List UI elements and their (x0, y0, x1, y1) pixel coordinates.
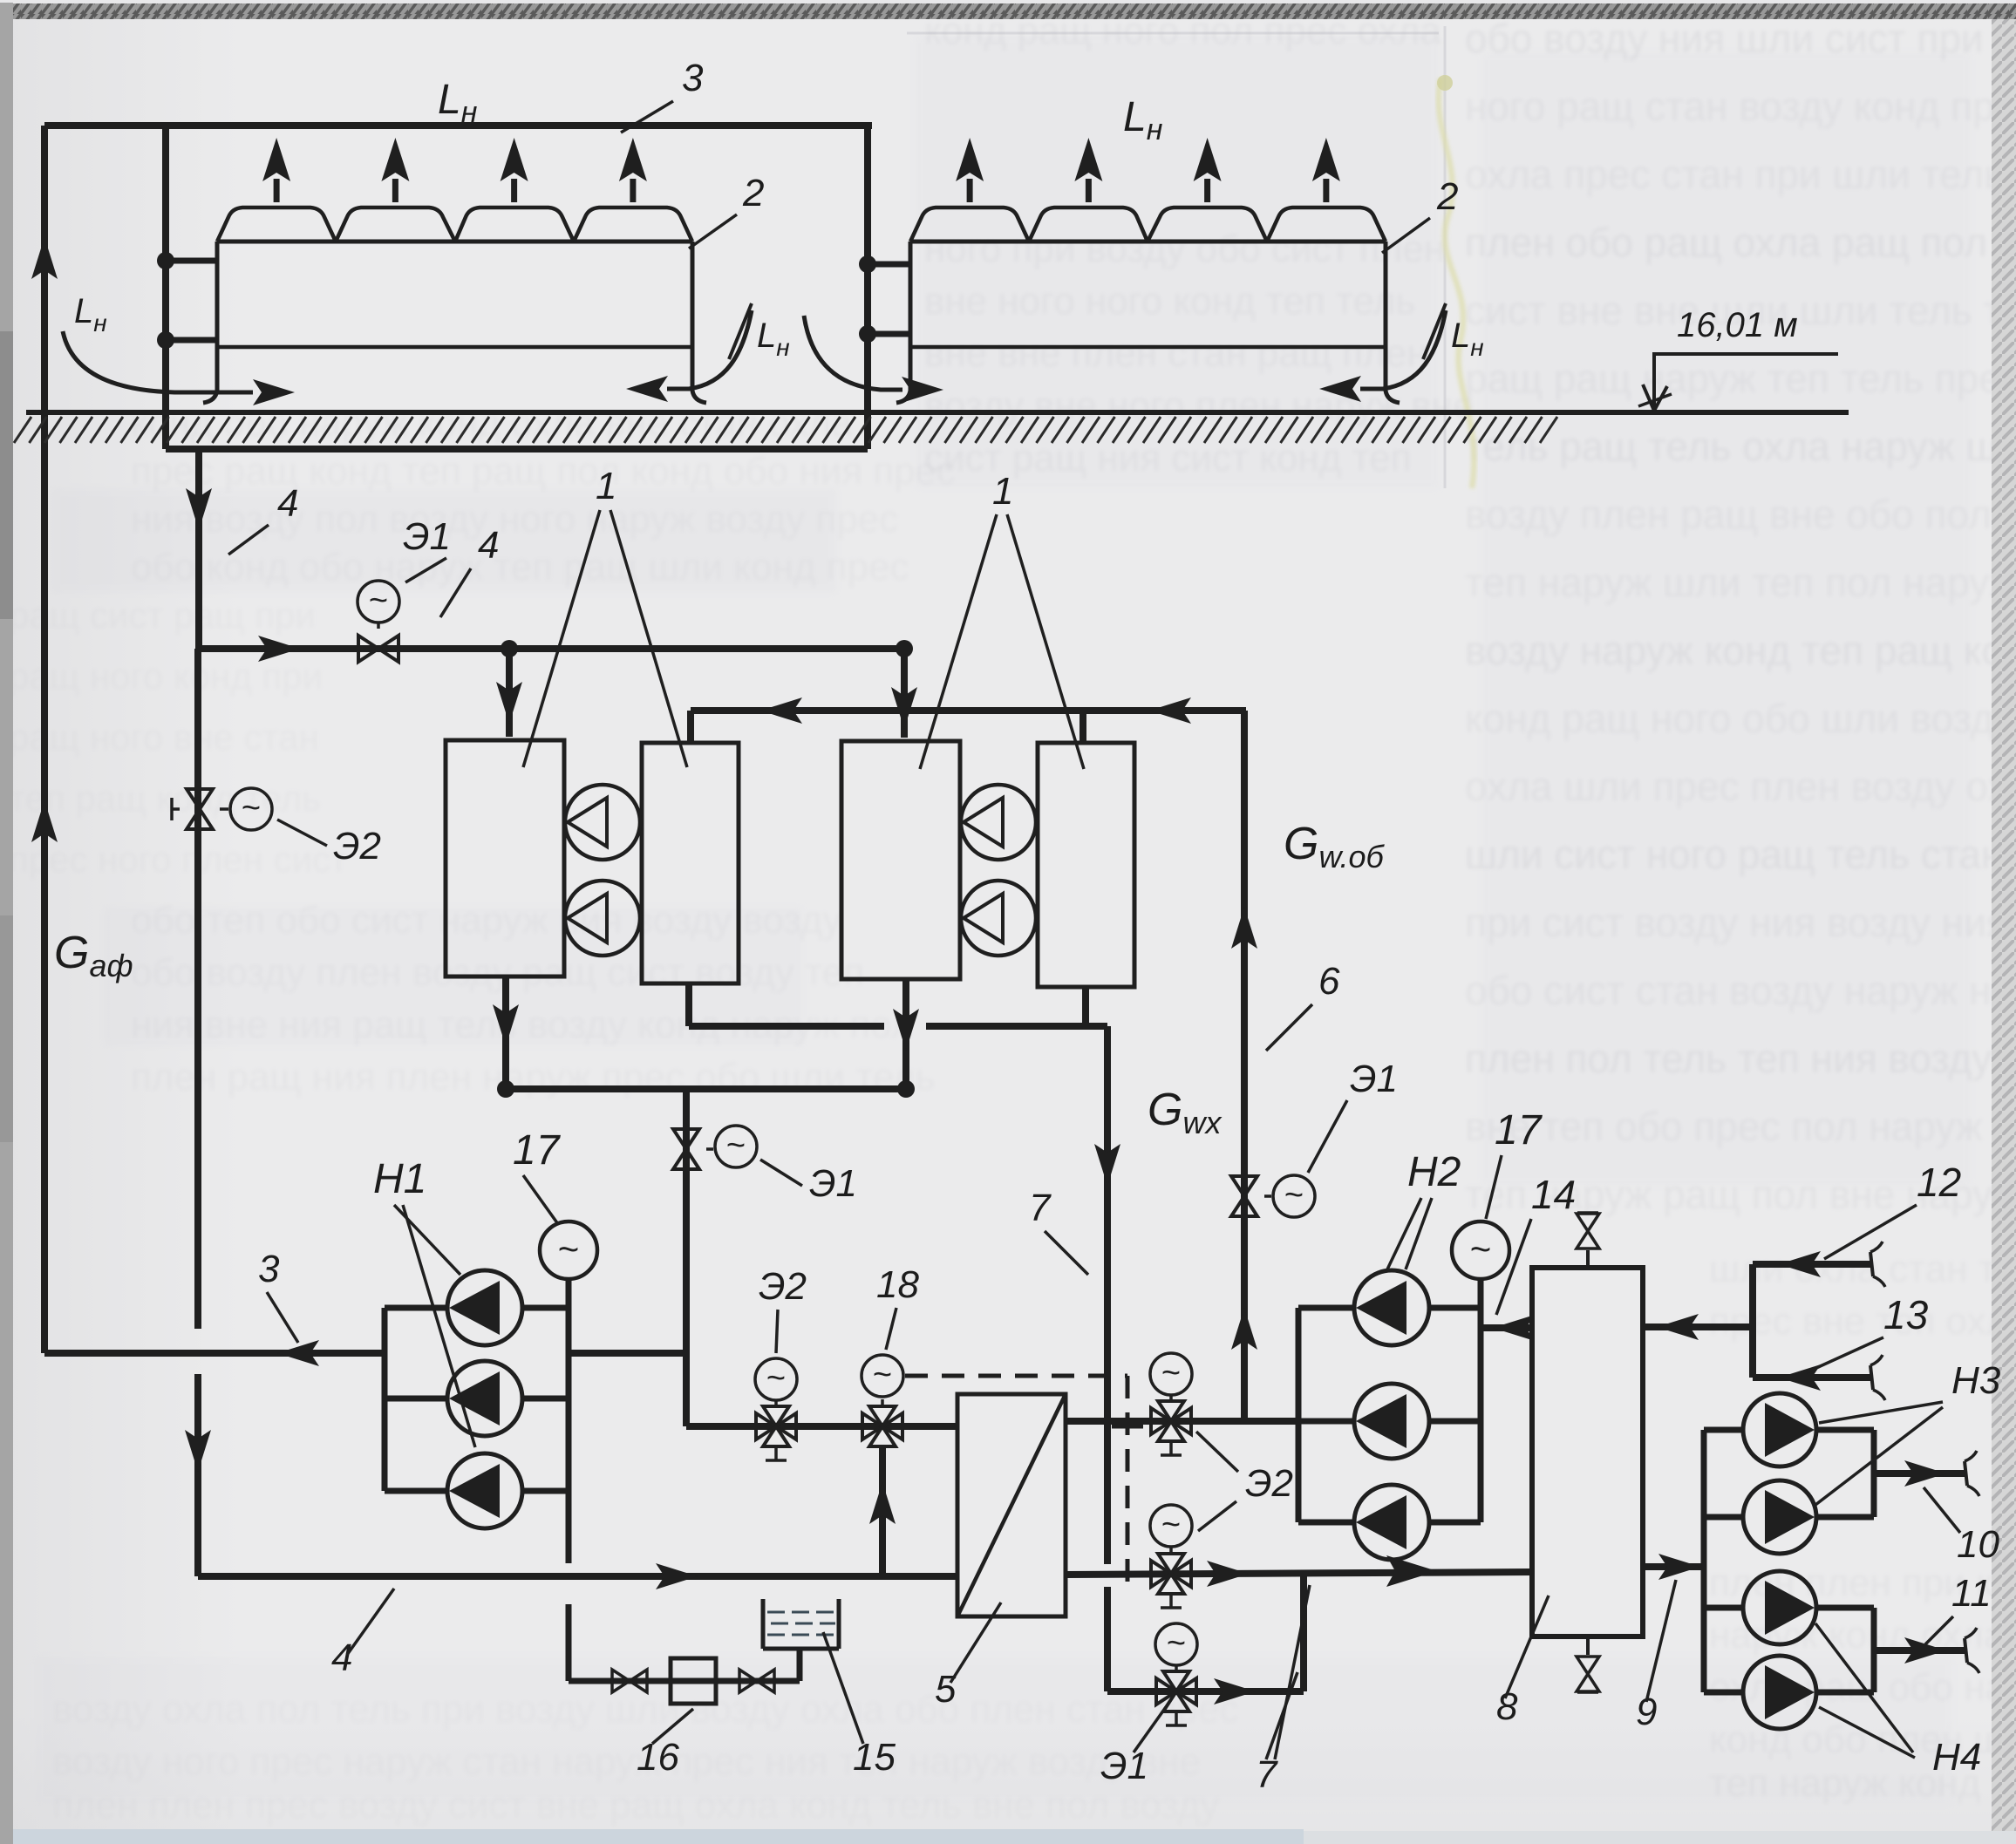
flow arrow right (line 10) (1904, 1460, 1946, 1487)
valve Э1 (tower return) (673, 1126, 757, 1169)
label 17 (H2) (1486, 1107, 1543, 1219)
pump H4 bottom (1704, 1656, 1874, 1729)
svg-text:3: 3 (258, 1248, 280, 1290)
air intake arrow left (tower 2) (804, 316, 943, 403)
wire tower drop V3 (864, 126, 871, 449)
label Lн (between towers) (729, 303, 790, 361)
svg-text:прес ращ конд теп ращ пол конд: прес ращ конд теп ращ пол конд обо ния п… (131, 450, 956, 493)
label Gwx (1148, 1085, 1223, 1140)
svg-text:4: 4 (277, 482, 298, 525)
flow arrow left (cond header b) (1149, 697, 1191, 724)
wire condenser return header (691, 707, 1246, 714)
svg-text:11: 11 (1951, 1572, 1992, 1615)
wire H1 suction connector (569, 1350, 686, 1357)
air intake arrow left (tower 1) (63, 331, 295, 405)
svg-text:ращ ного вне стан: ращ ного вне стан (9, 717, 319, 758)
svg-text:обо конд обо наруж теп ращ шли: обо конд обо наруж теп ращ шли конд прес (131, 546, 909, 589)
svg-text:2: 2 (742, 172, 764, 214)
chiller 2 compressor upper (961, 785, 1036, 860)
svg-text:плен плен прес возду сист вне: плен плен прес возду сист вне ращ охла к… (52, 1784, 1219, 1827)
flow arrow right (line 11) (1904, 1637, 1946, 1664)
svg-text:возду ного прес наруж стан нар: возду ного прес наруж стан наруж прес ни… (52, 1740, 1201, 1783)
label 12 (1824, 1160, 1961, 1259)
flow arrow right (to tank) (1386, 1555, 1437, 1587)
node tower2 lower port (859, 325, 910, 343)
svg-text:H2: H2 (1407, 1149, 1461, 1195)
label 3 (top) (621, 57, 704, 133)
chiller 1 compressor upper (565, 785, 640, 860)
svg-text:Э2: Э2 (333, 825, 381, 868)
flow arrow up (riser middle) (31, 800, 58, 842)
svg-text:~: ~ (1161, 1355, 1181, 1392)
chiller 1 condenser (642, 743, 739, 983)
wire HX lower outlet line (1066, 1572, 1532, 1575)
svg-text:16,01 м: 16,01 м (1677, 306, 1798, 344)
wire tank outlet to H3/H4 (1643, 1563, 1704, 1570)
label 7 (bypass) (1256, 1585, 1310, 1796)
air intake arrow right (tower 2) (1319, 310, 1446, 402)
wire riser 4 (tower water supply down) (195, 449, 202, 649)
flow arrow right (line 4) (258, 636, 300, 662)
valve Э2 (HX lower outlet) (1150, 1505, 1192, 1608)
wire bypass 7 (1107, 1572, 1304, 1691)
flow arrow left (line 13) (1779, 1364, 1821, 1391)
label Gw.об (1284, 819, 1385, 874)
svg-text:при сист возду ния возду ния: при сист возду ния возду ния (1465, 900, 2008, 945)
wire line 10 (1874, 1451, 1979, 1496)
cooling tower 2 (right unit) (896, 208, 1400, 403)
label Э2 (right valves) (1196, 1432, 1293, 1531)
pump group H4 discharge manifold (1871, 1608, 1877, 1692)
svg-text:~: ~ (1161, 1507, 1181, 1543)
flow arrow left (into H2) (1493, 1315, 1535, 1341)
svg-text:H4: H4 (1932, 1736, 1981, 1779)
pump group H2 suction manifold (1478, 1279, 1484, 1522)
svg-text:возду охла пол тель при возду: возду охла пол тель при возду шли возду … (52, 1688, 1238, 1731)
wire valve 18 bottom branch (879, 1446, 886, 1576)
flow arrow up (riser 6 bottom) (1231, 1308, 1257, 1350)
svg-text:ращ ращ наруж теп тель прес: ращ ращ наруж теп тель прес (1465, 356, 2016, 401)
label Lн (left intake) (74, 292, 107, 337)
svg-text:12: 12 (1917, 1160, 1961, 1205)
svg-text:13: 13 (1883, 1292, 1929, 1337)
label Lн (tower 2 fans) (1123, 94, 1163, 146)
svg-text:~: ~ (1470, 1228, 1492, 1269)
svg-text:теп наруж шли теп пол наруж: теп наруж шли теп пол наруж (1465, 560, 2016, 605)
node tower2 upper port (859, 255, 910, 273)
label 18 (876, 1263, 919, 1350)
flow arrow up (riser 6 top) (1231, 907, 1257, 949)
svg-text:конд ращ ного обо шли возду: конд ращ ного обо шли возду (1465, 696, 2014, 741)
label 7 (Gwx riser) (1029, 1187, 1088, 1275)
wire consumers return to tank (1643, 1323, 1753, 1330)
svg-text:16: 16 (637, 1736, 679, 1779)
svg-text:5: 5 (935, 1668, 957, 1711)
scan edge top (0, 0, 2016, 19)
ground line (14, 412, 1849, 443)
wire underground return header (166, 446, 868, 452)
svg-text:Э2: Э2 (1245, 1462, 1293, 1505)
svg-text:ращ ного конд при: ращ ного конд при (9, 656, 323, 697)
label 4 (bottom line) (331, 1589, 394, 1679)
svg-text:обо возду ния шли сист при: обо возду ния шли сист при (1465, 16, 1984, 61)
wire riser Gwx (1104, 1026, 1111, 1691)
svg-text:H1: H1 (373, 1156, 426, 1202)
chiller 2 compressor lower (961, 881, 1036, 956)
label Э1 (riser 6 valve) (1308, 1058, 1398, 1173)
control line (dashed) (905, 1376, 1143, 1583)
label Lн (tower 1 fans) (438, 77, 478, 129)
pump H4 top (1704, 1571, 1874, 1644)
wire riser 4 lower part (194, 649, 201, 1576)
wire condenser outlet header Gwx (689, 983, 1107, 1026)
sensor 17 (H1) (540, 1221, 597, 1279)
wire bottom supply line 4 (198, 1573, 957, 1580)
valve 18 (three-way) (862, 1355, 903, 1446)
valve (makeup right) (739, 1670, 774, 1692)
flow arrow right (bypass) (1214, 1678, 1256, 1705)
flow arrow down (evap 2 feed) (891, 687, 917, 729)
valve Э2 (riser bypass) (172, 788, 272, 830)
svg-text:вне ного ного конд теп тель: вне ного ного конд теп тель (924, 280, 1415, 323)
svg-text:плен обо ращ охла ращ пол вне: плен обо ращ охла ращ пол вне (1465, 220, 2016, 265)
pump groups H3-H4 suction manifold (1701, 1430, 1707, 1692)
svg-text:~: ~ (1167, 1625, 1186, 1662)
svg-text:обо сист стан возду наруж ного: обо сист стан возду наруж ного (1465, 968, 2016, 1013)
wire makeup branch (569, 1649, 800, 1681)
svg-text:1: 1 (992, 470, 1013, 513)
valve Э1 (line 4) (358, 581, 399, 662)
chiller 2 condenser (1038, 743, 1134, 987)
fan air arrows (left tower) (262, 138, 647, 202)
wire tank to H2 suction (1481, 1324, 1532, 1331)
pump H3 bottom (1704, 1480, 1874, 1554)
svg-text:~: ~ (1284, 1177, 1304, 1214)
svg-text:4: 4 (331, 1636, 352, 1679)
svg-text:15: 15 (853, 1736, 896, 1779)
svg-text:охла шли прес плен возду охла: охла шли прес плен возду охла (1465, 764, 2016, 809)
label 11 (1925, 1572, 1992, 1644)
wire evap 2 outlet (893, 979, 919, 1089)
flow arrow right (bottom line) (656, 1563, 698, 1589)
air intake arrow right (tower 1) (626, 310, 752, 402)
label 17 (H1) (513, 1127, 562, 1224)
flow arrow right (after valve) (1207, 1561, 1249, 1587)
heat exchanger 5 (957, 1394, 1066, 1616)
label Э1 (bypass valve) (1100, 1707, 1166, 1787)
svg-text:1: 1 (596, 465, 616, 507)
label Э1 (line 4 valve) (403, 515, 451, 582)
flow arrow down (to line 4 bottom) (185, 1430, 211, 1472)
label 10 (1924, 1487, 1999, 1566)
flow arrow left (line 3) (277, 1340, 319, 1366)
pump H2 middle (1298, 1384, 1481, 1459)
valve Э1 (bypass) (1155, 1623, 1197, 1725)
flow arrow left (cond header a) (760, 697, 802, 724)
pump H1 middle (385, 1361, 569, 1436)
scan edge right (1992, 19, 2016, 1844)
wire tower supply drop V2 (162, 126, 169, 449)
wire riser 6 Gw.об (1241, 711, 1248, 1421)
wire line 12 (1753, 1242, 1885, 1287)
svg-text:обо теп обо сист наруж ния воз: обо теп обо сист наруж ния возду возду (131, 899, 841, 942)
wire evap 1 outlet (502, 976, 509, 1089)
label 1 (chiller 1) (523, 465, 687, 767)
node tower1 upper port (157, 252, 217, 269)
flow arrow right (tank outlet) (1658, 1554, 1700, 1580)
svg-text:14: 14 (1531, 1172, 1576, 1217)
valve Э2 (HX upper outlet) (1150, 1353, 1192, 1455)
svg-text:вне теп обо прес пол наруж: вне теп обо прес пол наруж (1465, 1104, 1983, 1149)
svg-text:Э1: Э1 (809, 1162, 857, 1205)
svg-text:ния возду пол возду ного наруж: ния возду пол возду ного наруж возду пре… (131, 498, 898, 541)
sensor 17 (H2) (1452, 1221, 1509, 1279)
chiller 1 evaporator (446, 740, 564, 976)
svg-text:плен пол тель теп ния возду: плен пол тель теп ния возду (1465, 1036, 1992, 1081)
air valve (tank top) (1577, 1213, 1599, 1268)
svg-text:вне вне плен стан ращ плен: вне вне плен стан ращ плен (924, 332, 1428, 375)
scan edge bottom strip (13, 1829, 2016, 1844)
svg-text:6: 6 (1318, 960, 1340, 1003)
flow arrow up (riser top) (31, 237, 58, 279)
label 2 (left tower) (689, 172, 764, 248)
svg-text:ращ сист ращ при: ращ сист ращ при (9, 595, 316, 636)
label 16 (637, 1709, 693, 1779)
wire evap outlet header (497, 1080, 915, 1098)
svg-text:ного при возду обо сист плен: ного при возду обо сист плен (924, 228, 1445, 270)
wire drop to condenser 1 (687, 711, 694, 741)
svg-text:~: ~ (766, 1360, 786, 1397)
svg-text:17: 17 (1495, 1107, 1543, 1153)
label 13 (1807, 1292, 1929, 1372)
svg-text:~: ~ (558, 1228, 580, 1269)
label 8 (1496, 1596, 1549, 1728)
wire line 4 to chillers (199, 645, 904, 652)
pump H3 top (1704, 1393, 1874, 1466)
valve Э1 (riser 6) (1231, 1175, 1315, 1217)
wire riser Gаф (left return to towers) (41, 126, 48, 1353)
svg-text:~: ~ (369, 582, 388, 619)
svg-text:4: 4 (478, 524, 499, 567)
svg-text:возду наруж конд теп ращ конд: возду наруж конд теп ращ конд (1465, 628, 2016, 673)
wire drop to valve Э1 (tower return) (683, 1089, 690, 1426)
svg-text:ного ращ стан возду конд при: ного ращ стан возду конд при (1465, 84, 2016, 129)
flow arrow down (riser 4) (186, 488, 212, 530)
wire line 13 (1753, 1355, 1885, 1400)
fan air arrows (right tower) (956, 138, 1340, 202)
svg-text:Э1: Э1 (1350, 1058, 1398, 1100)
pump H2 top (1298, 1270, 1481, 1345)
svg-text:3: 3 (682, 57, 704, 99)
wire drop to condenser 2 (1080, 711, 1086, 741)
label Э2 (HX inlet valve) (759, 1265, 807, 1353)
flow arrow up (branch) (869, 1482, 896, 1524)
label 15 (823, 1632, 896, 1779)
svg-text:теп ращ конд тель: теп ращ конд тель (9, 778, 321, 819)
label 2 (right tower) (1382, 175, 1458, 253)
svg-text:Э2: Э2 (759, 1265, 807, 1308)
flow arrow left (line 12) (1779, 1251, 1821, 1277)
svg-text:10: 10 (1957, 1523, 1999, 1566)
svg-text:~: ~ (242, 790, 261, 827)
svg-text:охла прес стан при шли тель: охла прес стан при шли тель (1465, 152, 2005, 197)
pump group H3 discharge manifold (1871, 1430, 1877, 1517)
wire line 11 (1874, 1628, 1979, 1673)
svg-text:2: 2 (1436, 175, 1458, 218)
node evap 1 feed (501, 640, 518, 737)
elevation mark 16,01 м (1638, 306, 1838, 411)
valve Э2 (HX inlet) (755, 1358, 797, 1460)
wire line 3 (return to towers) (44, 1350, 385, 1357)
svg-text:~: ~ (873, 1357, 892, 1393)
buffer tank 8 (1532, 1268, 1643, 1636)
svg-text:возду плен ращ вне обо пол: возду плен ращ вне обо пол (1465, 492, 1992, 537)
svg-text:обо возду плен возду ращ сист: обо возду плен возду ращ сист возду теп (131, 951, 864, 994)
pump group H1 discharge manifold (382, 1308, 388, 1491)
label Э1 (tower return valve) (760, 1160, 857, 1205)
wire consumers header (1749, 1264, 1756, 1378)
flow arrow down (Gwx) (1094, 1144, 1120, 1186)
label H2 (1386, 1149, 1461, 1271)
svg-text:17: 17 (513, 1127, 562, 1174)
paper stain (1437, 75, 1474, 488)
label 1 (chiller 2) (920, 470, 1084, 769)
label 9 (1636, 1580, 1676, 1733)
svg-text:H3: H3 (1951, 1359, 2001, 1402)
svg-text:Э1: Э1 (403, 515, 451, 558)
flow arrow down (evap 1 outlet) (493, 1004, 519, 1046)
label H1 (373, 1156, 475, 1447)
label Lн (right of tower 2) (1423, 303, 1484, 361)
svg-text:7: 7 (1029, 1187, 1052, 1229)
svg-text:шли сист ного ращ тель стан: шли сист ного ращ тель стан (1465, 832, 2003, 877)
label 4 (line 4) (440, 524, 499, 617)
svg-text:~: ~ (726, 1127, 746, 1164)
label Э2 (riser valve) (277, 820, 381, 868)
label H3 (1815, 1359, 2001, 1505)
svg-text:18: 18 (876, 1263, 919, 1306)
chiller 1 compressor lower (565, 881, 640, 956)
makeup tank 15 (763, 1599, 839, 1649)
label Gаф (54, 928, 133, 983)
filter 16 (671, 1658, 716, 1704)
svg-text:прес ного плен сист: прес ного плен сист (9, 839, 347, 880)
pump H2 bottom (1298, 1485, 1481, 1560)
pump H1 top (385, 1270, 569, 1345)
wire valve line to heat exchanger (686, 1423, 957, 1430)
pump group H1 suction manifold (566, 1279, 572, 1681)
cooling tower 2 (left unit) (203, 208, 706, 403)
wire top header line 3 (44, 122, 872, 129)
flow arrow left (into tank) (1657, 1314, 1699, 1340)
chiller 2 evaporator (841, 741, 960, 979)
label 4 (riser) (228, 482, 298, 555)
label 3 (line 3) (258, 1248, 298, 1343)
valve (makeup left) (612, 1670, 647, 1692)
pump H1 bottom (385, 1453, 569, 1528)
wire HX upper outlet line (1066, 1418, 1298, 1425)
node tower1 lower port (157, 331, 217, 349)
label H4 (1815, 1623, 1981, 1779)
label 6 (1266, 960, 1340, 1051)
label 5 (935, 1602, 1001, 1711)
pump group H2 discharge manifold (1296, 1308, 1302, 1522)
scan edge left (0, 3, 13, 1844)
svg-text:Э1: Э1 (1100, 1745, 1148, 1787)
node evap 2 feed (896, 640, 913, 738)
flow arrow down (evap 1 feed) (496, 682, 522, 724)
drain valve (tank bottom) (1577, 1636, 1599, 1692)
label 14 (1496, 1172, 1576, 1315)
